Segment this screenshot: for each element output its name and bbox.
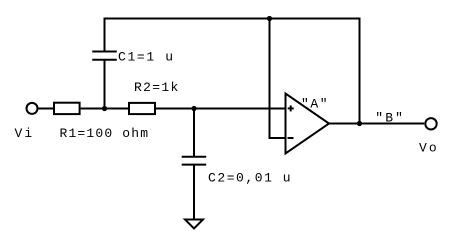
wire: op-amp output	[329, 123, 424, 125]
node: junction top rail feedback drop	[267, 16, 272, 21]
svg-text:R2=1k: R2=1k	[134, 80, 178, 95]
wire: feedback top rail	[105, 18, 360, 20]
svg-text:"A": "A"	[301, 96, 328, 111]
terminal Vi input port	[27, 103, 38, 114]
svg-text:Vi: Vi	[15, 126, 33, 141]
wire: top rail down to C1	[104, 19, 106, 52]
capacitor C1	[92, 52, 117, 60]
svg-text:Vo: Vo	[419, 141, 437, 156]
wire: Vi to R1	[38, 108, 54, 110]
ground	[185, 220, 203, 229]
svg-text:C2=0,01 u: C2=0,01 u	[208, 170, 291, 185]
wire: R1 to R2	[81, 108, 129, 110]
capacitor C2	[182, 157, 207, 165]
wire: C1 down to input node	[104, 60, 106, 109]
terminal Vo output port	[425, 118, 436, 129]
op-amp U1	[286, 94, 330, 154]
svg-text:R1=100 ohm: R1=100 ohm	[60, 126, 149, 141]
node: junction R1 C1	[102, 106, 107, 111]
node: output junction	[357, 121, 362, 126]
svg-text:C1=1 u: C1=1 u	[118, 49, 173, 64]
node: junction R2 C2	[191, 106, 196, 111]
wire: node down to C2	[193, 109, 195, 157]
op-amp plus input marker	[288, 105, 294, 111]
op-amp minus input marker	[288, 137, 294, 139]
wire: feedback drop to inverting input	[270, 19, 285, 139]
wire: C2 down to ground	[193, 165, 195, 219]
wire: R2 to op-amp noninverting input	[156, 108, 285, 110]
resistor R1	[54, 103, 80, 114]
resistor R2	[129, 103, 155, 114]
wire: output up to top rail	[359, 19, 361, 124]
svg-text:"B": "B"	[375, 111, 403, 126]
